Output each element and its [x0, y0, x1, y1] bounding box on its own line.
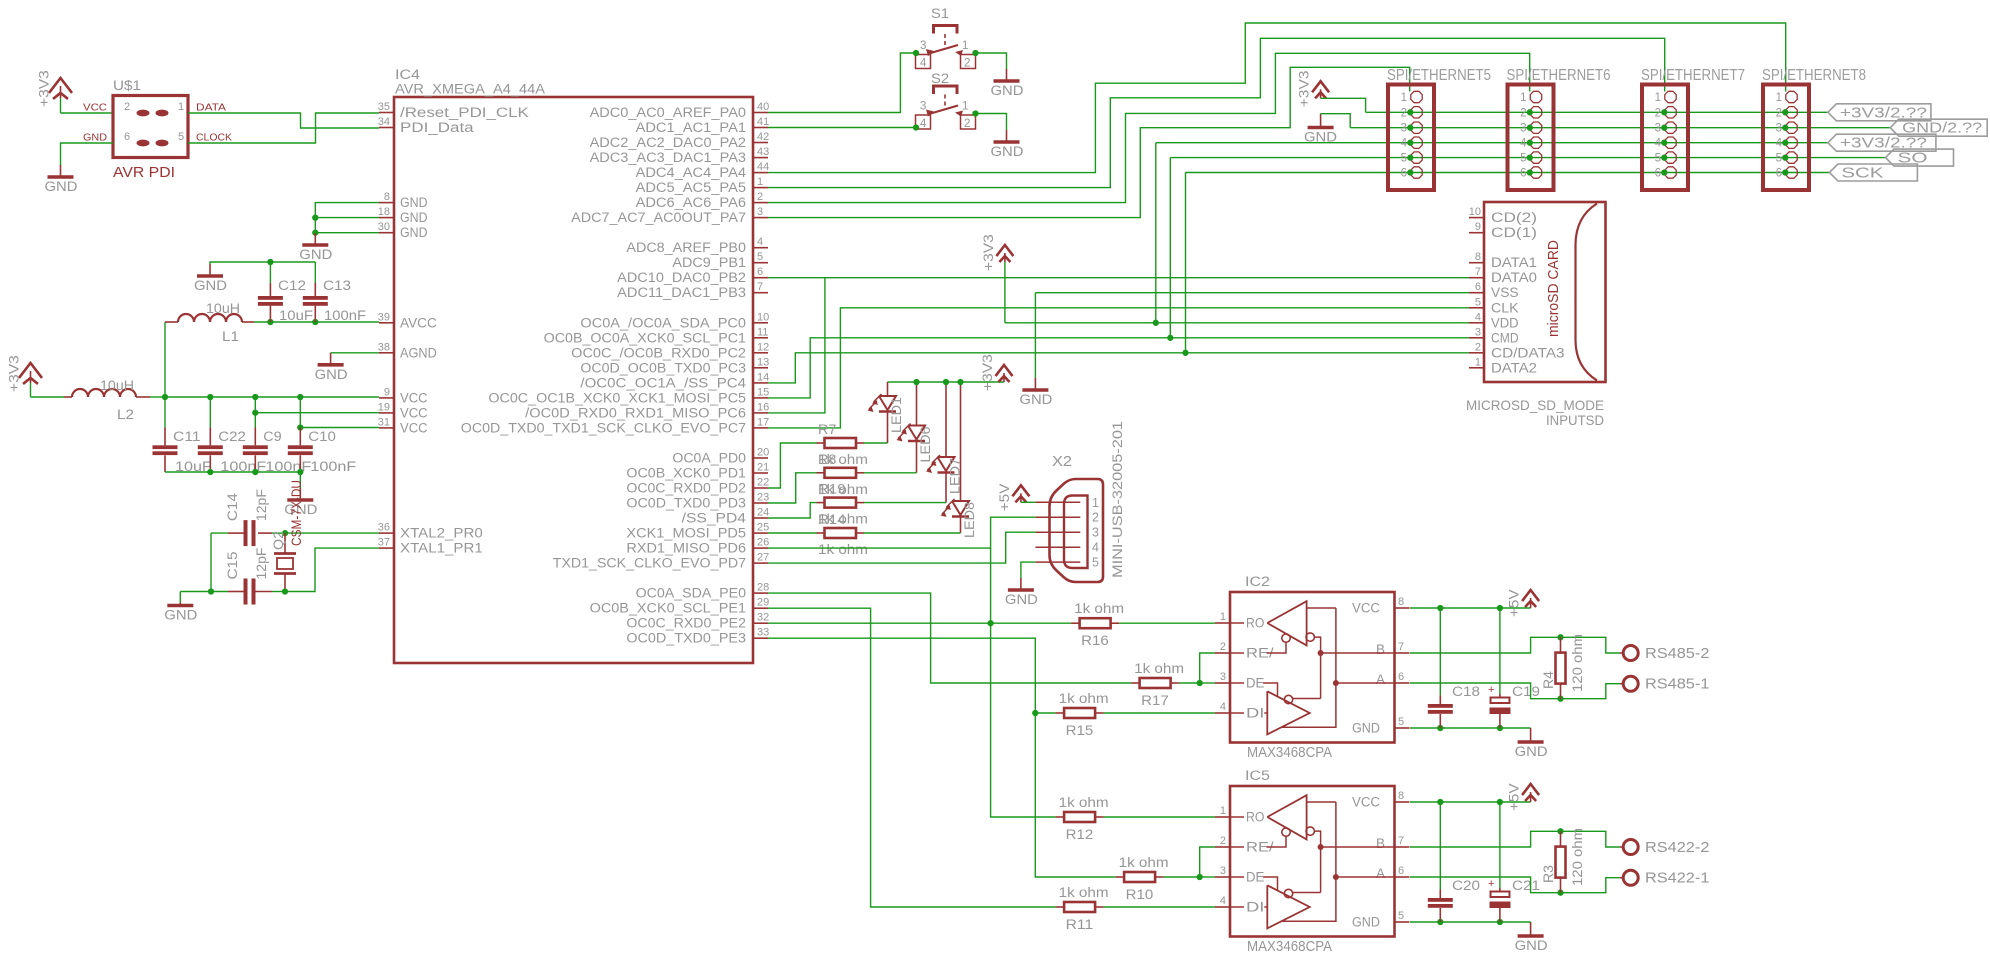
wire VCC rail up to L1: [164, 322, 166, 397]
svg-text:1k ohm: 1k ohm: [1134, 661, 1184, 676]
svg-text:IC4: IC4: [395, 67, 421, 82]
wire VCC pin 19 branch: [255, 412, 379, 414]
svg-text:A: A: [1376, 672, 1385, 687]
SPI/ETHERNET8 pin 5 pad: [1786, 152, 1797, 163]
svg-text:DE: DE: [1246, 676, 1264, 691]
svg-text:C12: C12: [278, 278, 306, 293]
svg-text:OC0A_PD0: OC0A_PD0: [672, 451, 746, 466]
svg-text:+5V: +5V: [1507, 589, 1522, 617]
svg-text:6: 6: [124, 131, 130, 143]
svg-text:RS485-1: RS485-1: [1645, 677, 1709, 693]
wire B to output network: [1410, 637, 1620, 653]
svg-text:B: B: [1376, 642, 1385, 657]
svg-text:1k ohm: 1k ohm: [1059, 795, 1109, 810]
junction GND pin30: [312, 230, 318, 236]
svg-text:1: 1: [1220, 805, 1226, 817]
svg-text:R16: R16: [1081, 633, 1109, 648]
IC5 receiver input line from A: [1335, 802, 1337, 877]
junction VCC rail / C9: [252, 394, 258, 400]
svg-text:8: 8: [384, 191, 390, 203]
svg-text:6: 6: [1398, 671, 1404, 683]
svg-text:C9: C9: [263, 429, 281, 444]
IC5 RE/ line to bubble: [1267, 836, 1287, 847]
svg-text:17: 17: [757, 416, 769, 428]
svg-text:R8: R8: [818, 452, 836, 467]
diode LED1: [887, 382, 889, 396]
junction S2 pad4: [913, 124, 919, 130]
SPI/ETHERNET5 pin 6 junction: [1407, 169, 1413, 175]
svg-text:4: 4: [1655, 138, 1662, 150]
SPI/ETHERNET8 pin 6 pad: [1786, 167, 1797, 178]
svg-text:31: 31: [378, 416, 390, 428]
svg-text:R7: R7: [818, 422, 836, 437]
IC4 pin 33 OC0D_TXD0_PE3: [753, 637, 768, 639]
svg-text:XTAL1_PR1: XTAL1_PR1: [400, 541, 483, 556]
IC5 pin 4 DI: [1215, 906, 1230, 908]
wire PA6 (pin2) to SPIETHERNET6 pin1: [768, 53, 1530, 202]
svg-text:22: 22: [757, 477, 769, 489]
junction A / R termination bottom: [1557, 696, 1563, 702]
svg-text:40: 40: [757, 101, 769, 113]
svg-text:ADC4_AC4_PA4: ADC4_AC4_PA4: [636, 165, 747, 180]
SPI/ETHERNET6 pin 3 pad: [1530, 122, 1541, 133]
svg-text:RXD1_MISO_PD6: RXD1_MISO_PD6: [626, 541, 746, 556]
svg-text:4: 4: [757, 236, 763, 248]
junction CD/DATA3 / header SCK column: [1182, 350, 1188, 356]
wire RE/ jog (IC2): [1200, 653, 1215, 683]
svg-text:A: A: [1376, 866, 1385, 881]
wire header pin6 rail down to CD/DATA3 rail: [1185, 173, 1187, 353]
svg-text:12pF: 12pF: [254, 489, 269, 521]
svg-text:ADC8_AREF_PB0: ADC8_AREF_PB0: [626, 240, 746, 255]
svg-text:/Reset_PDI_CLK: /Reset_PDI_CLK: [400, 105, 529, 120]
IC2 enable bubble left: [1282, 634, 1290, 642]
IC5 driver buffer: [1267, 885, 1309, 928]
svg-text:100nF: 100nF: [310, 459, 356, 474]
svg-text:SCK: SCK: [1841, 165, 1883, 182]
wire VCC rail to +5V: [1410, 801, 1531, 803]
svg-text:CSM-7X-DU: CSM-7X-DU: [289, 480, 304, 546]
wire USB pin3 to PD7 (pin27): [768, 532, 1035, 563]
IC4 pin 32 OC0C_RXD0_PE2: [753, 622, 768, 624]
SPI/ETHERNET8 pin 3 pad: [1786, 122, 1797, 133]
IC2 pin 4 DI: [1215, 712, 1230, 714]
IC4 pin 42 ADC2_AC2_DAC0_PA2: [753, 142, 768, 144]
power flag +5V: [1530, 792, 1532, 802]
svg-text:OC0B_XCK0_PD1: OC0B_XCK0_PD1: [626, 466, 746, 481]
ground GND (C12/C13): [209, 264, 211, 276]
svg-text:GND: GND: [1515, 938, 1548, 953]
svg-text:1: 1: [1655, 92, 1661, 104]
junction CMD / header SO column: [1167, 335, 1173, 341]
IC5 pin 3 DE: [1215, 876, 1230, 878]
svg-text:C14: C14: [225, 493, 240, 522]
junction GND / polarized cap bottom: [1497, 725, 1503, 731]
IC2 RE/ line to bubble: [1267, 642, 1287, 653]
wire +3V3 to header pin2 rail: [1321, 98, 1366, 112]
svg-text:1: 1: [1401, 92, 1407, 104]
svg-text:44: 44: [757, 161, 769, 173]
svg-text:2: 2: [1655, 107, 1661, 119]
svg-text:VSS: VSS: [1491, 285, 1519, 300]
IC4 pin 39 AVCC: [379, 322, 394, 324]
svg-text:VCC: VCC: [1352, 601, 1380, 616]
wire IC4 pin41 to S2 pad4: [768, 127, 916, 129]
wire R19 left to IC4 pin: [768, 503, 817, 518]
IC4 pin 23 OC0D_TXD0_PD3: [753, 502, 768, 504]
svg-text:6: 6: [1655, 168, 1661, 180]
svg-text:SPI/ETHERNET7: SPI/ETHERNET7: [1641, 67, 1745, 84]
wire DATA net U$1 to IC4 pin 34: [188, 113, 379, 128]
resistor R4 120 ohm (termination): [1560, 637, 1562, 652]
svg-text:C13: C13: [323, 278, 351, 293]
svg-text:9: 9: [384, 386, 390, 398]
IC4 pin 8 GND: [379, 202, 394, 204]
wire R14 right to LED: [864, 532, 961, 534]
svg-text:3: 3: [1220, 671, 1226, 683]
wire C14 left down to gnd row: [210, 533, 212, 591]
svg-text:R10: R10: [1126, 887, 1154, 902]
svg-text:8: 8: [1398, 596, 1404, 608]
svg-text:30: 30: [378, 221, 390, 233]
svg-text:25: 25: [757, 522, 769, 534]
IC IC5 MAX3468CPA outline: [1230, 786, 1395, 937]
wire R15 to IC2 pin4: [1104, 712, 1215, 714]
SPI/ETHERNET8 pin 6 junction: [1782, 169, 1788, 175]
junction LED rail / LED7: [943, 379, 949, 385]
svg-text:DATA1: DATA1: [1491, 255, 1537, 270]
ground GND (crystal): [179, 592, 181, 603]
capacitor C18: [1439, 608, 1441, 696]
SPI/ETHERNET8 pin 5 junction: [1782, 154, 1788, 160]
IC5 enable bubble left: [1282, 828, 1290, 836]
wire U$1 GND pin to ground: [61, 143, 114, 165]
U$1 pad pin6: [137, 140, 150, 147]
svg-text:GND: GND: [83, 132, 107, 144]
svg-text:28: 28: [757, 582, 769, 594]
capacitor C19 (polarized): [1499, 608, 1501, 694]
svg-text:3: 3: [1220, 865, 1226, 877]
IC5 pin 5 GND: [1395, 921, 1410, 923]
svg-text:7: 7: [757, 281, 763, 293]
IC4 pin 27 TXD1_SCK_CLKO_EVO_PD7: [753, 562, 768, 564]
svg-text:10uF: 10uF: [279, 308, 313, 323]
resistor R10 1k ohm: [1124, 872, 1155, 882]
SPI/ETHERNET6 pin 5 pad: [1530, 152, 1541, 163]
svg-text:R11: R11: [1066, 917, 1094, 932]
svg-text:OC0B_XCK0_SCL_PE1: OC0B_XCK0_SCL_PE1: [590, 601, 746, 616]
svg-text:4: 4: [1220, 895, 1226, 907]
IC4 pin 19 VCC: [379, 412, 394, 414]
net flag SO (pin5): [1886, 149, 1954, 166]
svg-text:1: 1: [178, 101, 184, 113]
svg-text:S1: S1: [931, 6, 949, 21]
junction VDD / header +3V3 column: [1153, 320, 1159, 326]
IC5 bubble to B line: [1314, 831, 1320, 892]
IC2 receiver buffer: [1267, 601, 1306, 645]
SPI/ETHERNET7 pin 5 junction: [1661, 154, 1667, 160]
wire PE2 (pin32) to R16: [768, 622, 1071, 624]
switch S1 bracket: [934, 26, 958, 34]
SPI/ETHERNET7 pin 2 junction: [1661, 109, 1667, 115]
SPI/ETHERNET7 pin 5 pad: [1665, 152, 1676, 163]
crystal Q2 CSM-7X-DU: [284, 533, 286, 553]
junction GND / polarized cap bottom: [1497, 919, 1503, 925]
svg-text:4: 4: [1092, 541, 1099, 555]
svg-text:RO: RO: [1246, 810, 1264, 825]
SPI/ETHERNET7 pin 3 pad: [1665, 122, 1676, 133]
SPI/ETHERNET5 pin 5 junction: [1407, 154, 1413, 160]
svg-text:6: 6: [1520, 168, 1526, 180]
SPI/ETHERNET6 pin 3 junction: [1527, 125, 1533, 131]
junction VCC / polarized cap top: [1497, 605, 1503, 611]
svg-text:1k ohm: 1k ohm: [1074, 601, 1124, 616]
IC4 pin 30 GND: [379, 232, 394, 234]
IC2 pin 3 DE: [1215, 682, 1230, 684]
svg-text:GND: GND: [400, 225, 428, 240]
SPI/ETHERNET5 pin 3 junction: [1407, 125, 1413, 131]
svg-text:DI: DI: [1246, 900, 1264, 915]
IC2 driver output line: [1282, 683, 1336, 727]
svg-text:3: 3: [920, 101, 926, 113]
svg-text:+: +: [1488, 684, 1494, 696]
pad RS485-1: [1623, 676, 1638, 691]
svg-text:1: 1: [1220, 611, 1226, 623]
switch S1 lever: [929, 45, 958, 54]
IC4 pin 34 PDI_Data: [379, 127, 394, 129]
svg-text:/OC0D_RXD0_RXD1_MISO_PC6: /OC0D_RXD0_RXD1_MISO_PC6: [525, 405, 746, 420]
SPI/ETHERNET5 pin 5 pad: [1411, 152, 1422, 163]
svg-text:4: 4: [1401, 138, 1408, 150]
SPI/ETHERNET8 pin 1 pad: [1786, 91, 1797, 102]
net rail +3V3 header pin4 row: [1156, 142, 1828, 144]
resistor R16 1k ohm: [1080, 618, 1111, 628]
svg-text:10uH: 10uH: [100, 378, 134, 393]
anode rail +3V3 for LEDs: [888, 381, 1005, 383]
svg-text:CLOCK: CLOCK: [196, 132, 232, 144]
ground GND (S1): [1006, 69, 1008, 81]
wire S1 pin1 to ground: [976, 53, 1007, 69]
svg-text:GND: GND: [315, 367, 348, 382]
svg-text:DATA0: DATA0: [1491, 270, 1537, 285]
junction GND / cap bottom: [1437, 919, 1443, 925]
wire A to output network: [1410, 683, 1620, 699]
svg-text:3: 3: [920, 40, 926, 52]
IC4 pin 6 ADC10_DAC0_PB2: [753, 277, 768, 279]
svg-text:GND: GND: [1019, 392, 1052, 407]
svg-text:33: 33: [757, 627, 769, 639]
svg-text:2: 2: [1475, 341, 1481, 353]
ground GND (AGND): [330, 353, 332, 365]
svg-text:1: 1: [1776, 92, 1782, 104]
svg-text:120 ohm: 120 ohm: [1570, 634, 1585, 692]
junction C10 column / VCC pin31: [297, 424, 303, 430]
svg-text:2: 2: [757, 191, 763, 203]
resistor R3 120 ohm (termination): [1560, 831, 1562, 846]
SPI/ETHERNET5 pin 3 pad: [1411, 122, 1422, 133]
junction GND pin18: [312, 214, 318, 220]
svg-text:GND: GND: [164, 608, 197, 623]
svg-text:VCC: VCC: [83, 102, 107, 114]
svg-text:35: 35: [378, 101, 390, 113]
svg-text:2: 2: [1220, 835, 1226, 847]
svg-text:12pF: 12pF: [254, 548, 269, 580]
IC4 pin 28 OC0A_SDA_PE0: [753, 592, 768, 594]
svg-text:OC0A_SDA_PE0: OC0A_SDA_PE0: [636, 586, 746, 601]
svg-text:VCC: VCC: [400, 420, 428, 435]
svg-text:ADC10_DAC0_PB2: ADC10_DAC0_PB2: [617, 270, 746, 285]
power flag +3V3 (microSD VDD): [1004, 253, 1006, 262]
power flag +3V3 (LED rail): [1003, 373, 1005, 382]
IC5 pin 6 A: [1395, 876, 1410, 878]
junction S1 pin3: [913, 50, 919, 56]
svg-text:12: 12: [757, 341, 769, 353]
svg-text:S2: S2: [931, 71, 949, 86]
svg-text:GND: GND: [991, 83, 1024, 98]
svg-text:ADC5_AC5_PA5: ADC5_AC5_PA5: [636, 180, 746, 195]
svg-text:VDD: VDD: [1491, 315, 1519, 330]
connector microSD card outline: [1484, 202, 1606, 382]
AVCC wire L1 to IC4 pin 39: [254, 321, 379, 323]
svg-text:11: 11: [757, 326, 768, 338]
svg-text:IC2: IC2: [1245, 574, 1270, 589]
X2 pin 3 line: [1035, 531, 1080, 533]
wire C10 to ground: [299, 472, 301, 488]
net flag +3V3/2.?? (pin2): [1828, 104, 1931, 121]
svg-text:16: 16: [757, 401, 769, 413]
svg-text:9: 9: [1475, 221, 1481, 233]
junction VCC rail / C22: [207, 394, 213, 400]
wire VSS rail to microSD VSS: [1035, 292, 1469, 294]
svg-text:XTAL2_PR0: XTAL2_PR0: [400, 526, 483, 541]
junction B / R termination top: [1557, 828, 1563, 834]
svg-text:GND: GND: [1352, 721, 1380, 736]
svg-text:4: 4: [920, 58, 927, 70]
svg-text:1: 1: [1092, 496, 1099, 510]
SPI/ETHERNET6 pin 6 pad: [1530, 167, 1541, 178]
svg-text:R14: R14: [818, 512, 846, 527]
junction gnd rail / C22: [207, 469, 213, 475]
U$1 pad pin5: [156, 140, 169, 147]
wire header GND symbol to pin3 rail: [1321, 114, 1351, 128]
IC5 pin 2 RE/: [1215, 846, 1230, 848]
svg-text:SPI/ETHERNET6: SPI/ETHERNET6: [1507, 67, 1611, 84]
SPI/ETHERNET8 pin 2 junction: [1782, 109, 1788, 115]
svg-text:VCC: VCC: [400, 390, 428, 405]
capacitor C11 10uF: [164, 397, 166, 428]
svg-text:+5V: +5V: [997, 484, 1012, 512]
net flag SCK (pin6): [1829, 164, 1917, 181]
junction gnd rail / C9: [252, 469, 258, 475]
svg-text:ADC2_AC2_DAC0_PA2: ADC2_AC2_DAC0_PA2: [590, 135, 746, 150]
SPI/ETHERNET7 pin 3 junction: [1661, 125, 1667, 131]
wire VCC rail to +5V: [1410, 607, 1531, 609]
svg-text:1k ohm: 1k ohm: [1119, 855, 1169, 870]
IC4 pin 41 ADC1_AC1_PA1: [753, 127, 768, 129]
net rail SCK header pin6 row: [1186, 172, 1830, 174]
svg-text:1: 1: [962, 101, 968, 113]
svg-text:+3V3: +3V3: [1297, 70, 1312, 107]
svg-text:GND: GND: [1304, 130, 1337, 145]
SPI/ETHERNET5 pin 2 pad: [1411, 107, 1422, 118]
switch S2 pad 2: [961, 115, 976, 129]
svg-text:MAX3468CPA: MAX3468CPA: [1247, 745, 1332, 761]
svg-text:GND: GND: [400, 195, 428, 210]
SPI/ETHERNET7 pin 2 pad: [1665, 107, 1676, 118]
IC4 pin 4 ADC8_AREF_PB0: [753, 247, 768, 249]
resistor R11 1k ohm: [1064, 902, 1095, 912]
switch S1 plunger (dashed): [944, 34, 946, 47]
junction Q2 bottom: [282, 588, 288, 594]
connector X2 MINI-USB outline: [1050, 479, 1104, 582]
wire R7 right to LED: [864, 442, 888, 444]
svg-text:R3: R3: [1541, 865, 1556, 883]
svg-text:OC0A_/OC0A_SDA_PC0: OC0A_/OC0A_SDA_PC0: [580, 315, 746, 330]
svg-text:+5V: +5V: [1507, 783, 1522, 811]
IC2 enable bubble right: [1306, 633, 1314, 641]
switch S2 pad 4: [916, 115, 931, 129]
IC4 pin 43 ADC3_AC3_DAC1_PA3: [753, 157, 768, 159]
svg-text:MAX3468CPA: MAX3468CPA: [1247, 939, 1332, 955]
IC5 pin 7 B: [1395, 846, 1410, 848]
wire C12/C13 tops to ground: [210, 262, 315, 264]
svg-text:PDI_Data: PDI_Data: [400, 120, 474, 135]
svg-text:Q2: Q2: [271, 531, 286, 550]
svg-text:DI: DI: [1246, 706, 1264, 721]
IC5 bubble link to B column: [1293, 892, 1321, 894]
svg-text:5: 5: [1776, 153, 1782, 165]
SPI/ETHERNET6 pin 4 junction: [1527, 140, 1533, 146]
svg-text:OC0D_OC0B_TXD0_PC3: OC0D_OC0B_TXD0_PC3: [580, 360, 746, 375]
svg-text:OC0B_OC0A_XCK0_SCL_PC1: OC0B_OC0A_XCK0_SCL_PC1: [544, 330, 746, 345]
SPI/ETHERNET7 pin 1 pad: [1665, 91, 1676, 102]
wire header pin5 rail down to CMD rail: [1169, 158, 1171, 338]
svg-text:C22: C22: [218, 429, 246, 444]
junction RE-DE tie (IC2): [1197, 680, 1203, 686]
svg-text:39: 39: [378, 311, 390, 323]
wire R16 to IC2 pin1: [1119, 622, 1215, 624]
wire PC7 (pin17) to microSD CLK: [768, 308, 1469, 428]
svg-text:5: 5: [1398, 910, 1404, 922]
IC2 pin 7 B: [1395, 652, 1410, 654]
svg-text:GND: GND: [45, 179, 78, 194]
net rail GND header pin3 row: [1350, 127, 1890, 129]
junction VCC rail / C11 / L1 branch: [162, 394, 168, 400]
svg-text:32: 32: [757, 612, 769, 624]
SPI/ETHERNET5 pin 2 junction: [1407, 109, 1413, 115]
svg-text:CMD: CMD: [1491, 330, 1519, 345]
SPI/ETHERNET7 pin 6 junction: [1661, 169, 1667, 175]
svg-text:GND: GND: [400, 210, 428, 225]
svg-text:C15: C15: [225, 552, 240, 580]
ground GND (VSS): [1034, 378, 1036, 390]
diode LED7: [945, 382, 947, 457]
junction S2 pin1: [972, 110, 978, 116]
svg-text:4: 4: [1520, 138, 1527, 150]
switch S2 bracket: [934, 86, 958, 94]
wire A to output network: [1410, 877, 1620, 893]
svg-text:AGND: AGND: [400, 345, 437, 360]
IC2 junction A line: [1333, 680, 1339, 686]
SPI/ETHERNET5 pin 6 pad: [1411, 167, 1422, 178]
wire R7 left to IC4 pin: [768, 443, 817, 488]
svg-text:2: 2: [1401, 107, 1407, 119]
wire PE1 (pin29) to R11: [768, 608, 1056, 907]
svg-text:LED6: LED6: [918, 427, 933, 463]
svg-text:10: 10: [757, 311, 769, 323]
svg-text:CD(2): CD(2): [1491, 210, 1537, 225]
svg-text:AVR PDI: AVR PDI: [113, 165, 175, 181]
